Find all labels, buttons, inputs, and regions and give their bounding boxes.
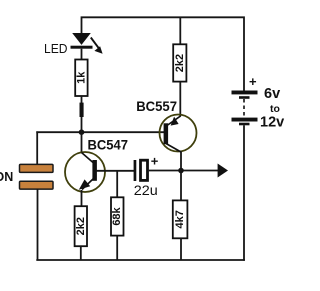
wire top rail to 2k2 (top) xyxy=(179,17,181,44)
svg-text:ON: ON xyxy=(0,170,13,184)
resistor 1k xyxy=(75,60,87,97)
svg-text:to: to xyxy=(270,103,280,115)
wire node A to BC547 collector xyxy=(81,132,83,153)
svg-text:68k: 68k xyxy=(111,206,123,225)
wire right rail xyxy=(243,125,245,260)
output arrow xyxy=(218,164,228,178)
wire middle horizontal (plates to BC557 base) xyxy=(36,131,164,133)
wire thick segment to node A xyxy=(81,117,83,132)
resistor 2k2 (top) xyxy=(173,44,186,81)
battery B1 6v-12v xyxy=(232,74,285,131)
svg-text:4k7: 4k7 xyxy=(174,210,186,228)
wire 68k to bottom rail xyxy=(116,236,118,260)
wire tee to 68k xyxy=(116,171,118,198)
wire LED cathode to 1k xyxy=(81,49,83,60)
wire BC557 collector to node B xyxy=(180,152,182,171)
wire capacitor to node B and output xyxy=(149,170,219,172)
svg-text:+: + xyxy=(249,74,257,89)
wire 2k2 (top) to BC557 emitter xyxy=(179,82,181,116)
svg-text:BC547: BC547 xyxy=(88,138,129,153)
svg-text:+: + xyxy=(151,154,159,169)
wire node B to 4k7 xyxy=(180,171,182,201)
wire top rail xyxy=(82,17,245,91)
transistor Q2 BC557 xyxy=(136,99,196,152)
touch plates ON xyxy=(0,164,53,189)
svg-text:12v: 12v xyxy=(260,115,284,131)
svg-text:6v: 6v xyxy=(264,86,280,102)
wire BC547 emitter down xyxy=(81,190,83,206)
resistor 2k2 (emitter) xyxy=(75,206,87,246)
resistor 4k7 xyxy=(173,200,188,238)
svg-text:2k2: 2k2 xyxy=(174,54,186,72)
transistor Q1 BC547 xyxy=(65,138,128,193)
wire left rail lower xyxy=(37,189,39,260)
svg-text:LED: LED xyxy=(44,41,68,56)
capacitor 22u xyxy=(134,154,159,199)
node A junction dot xyxy=(79,129,85,135)
svg-text:22u: 22u xyxy=(134,183,158,198)
wire 1k to thick segment xyxy=(81,96,83,104)
wire left rail upper xyxy=(36,131,38,165)
svg-text:1k: 1k xyxy=(75,71,87,84)
svg-text:BC557: BC557 xyxy=(136,99,177,114)
wire 2k2 to bottom rail xyxy=(80,246,82,260)
node B junction dot xyxy=(178,168,184,174)
svg-text:2k2: 2k2 xyxy=(75,217,87,235)
wire bottom rail xyxy=(36,259,245,261)
resistor 68k xyxy=(111,197,124,235)
wire BC547 base to capacitor xyxy=(97,170,135,172)
wire 4k7 to bottom rail xyxy=(180,238,182,260)
LED xyxy=(44,33,103,56)
thick wire segment below 1k xyxy=(80,103,84,117)
